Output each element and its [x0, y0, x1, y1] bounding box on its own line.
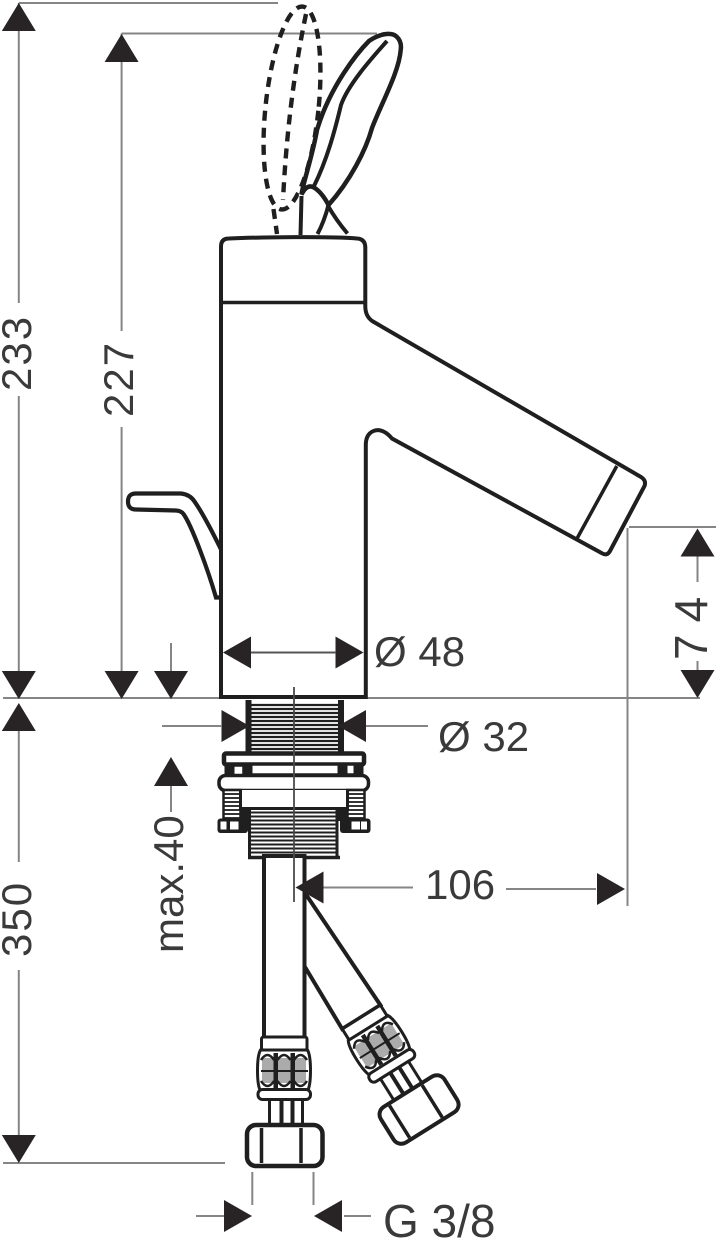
- svg-text:106: 106: [425, 861, 495, 908]
- svg-text:350: 350: [0, 881, 40, 957]
- svg-text:Ø 48: Ø 48: [374, 628, 465, 675]
- svg-text:Ø 32: Ø 32: [438, 713, 529, 760]
- svg-text:max.40: max.40: [145, 815, 192, 953]
- svg-text:233: 233: [0, 315, 40, 391]
- svg-text:74: 74: [665, 585, 717, 660]
- svg-text:G 3/8: G 3/8: [383, 1195, 496, 1240]
- svg-text:227: 227: [95, 341, 142, 417]
